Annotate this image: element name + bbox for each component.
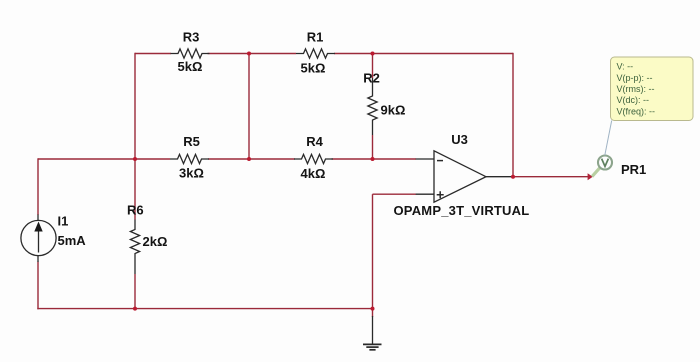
current source bottom pin <box>37 256 39 262</box>
wire mid row right of R4 to op-amp pin <box>332 158 417 160</box>
resistor R5 <box>170 154 209 163</box>
wire top segment between R3 and R1 <box>208 53 297 55</box>
probe PR1 green stub <box>592 168 600 177</box>
op-amp plus pin <box>416 193 434 195</box>
wire left vertical upper (x=135) <box>134 53 136 220</box>
resistor R6 (vertical) <box>130 220 139 275</box>
current source top pin <box>37 215 39 221</box>
junction node mid-middle (249,159) <box>247 157 251 161</box>
junction node output (513,176.7) <box>511 175 515 179</box>
wire top segment left of R3 <box>37 53 588 317</box>
svg-text:V: --: V: -- <box>617 62 634 72</box>
svg-text:9kΩ: 9kΩ <box>381 102 406 117</box>
svg-text:R3: R3 <box>183 30 200 45</box>
svg-text:V(rms): --: V(rms): -- <box>617 84 655 94</box>
wire vertical x=249 between top and mid rows <box>248 54 250 160</box>
op-amp minus sign <box>437 160 443 162</box>
svg-text:R6: R6 <box>127 203 144 218</box>
wire R2 column upper <box>372 54 374 79</box>
svg-text:3kΩ: 3kΩ <box>179 166 204 181</box>
junction node top-middle (249,53.5) <box>247 52 251 56</box>
resistor R1 <box>296 49 335 58</box>
wire mid row left of R5 <box>38 158 170 160</box>
svg-text:2kΩ: 2kΩ <box>143 234 168 249</box>
wire top segment right of R1 to feedback corner <box>334 53 513 55</box>
wire I1 branch lower <box>37 262 39 310</box>
op-amp output pin <box>486 176 512 178</box>
ground lead black <box>372 316 374 344</box>
svg-text:V(dc): --: V(dc): -- <box>617 95 650 105</box>
wire feedback vertical x=513 <box>512 53 514 177</box>
wire ground stub red <box>372 309 374 317</box>
junction node mid R2 (372.5,159) <box>371 157 375 161</box>
svg-text:OPAMP_3T_VIRTUAL: OPAMP_3T_VIRTUAL <box>394 203 530 218</box>
op-amp minus pin <box>416 158 434 160</box>
ground bar 1 <box>363 343 382 345</box>
junction node mid-left (135,159) <box>133 157 137 161</box>
junction node bottom R6 column (135,308.6) <box>133 307 137 311</box>
svg-text:V(p-p): --: V(p-p): -- <box>617 73 653 83</box>
wire plus-input vertical down to bottom row <box>372 194 374 308</box>
svg-text:R2: R2 <box>363 71 380 86</box>
probe wire arrowhead <box>588 173 593 180</box>
current source I1 circle <box>21 220 56 255</box>
current source arrowhead <box>34 222 42 232</box>
wire I1 branch upper <box>37 158 39 215</box>
wire left vertical lower below R6 <box>134 274 136 309</box>
svg-text:4kΩ: 4kΩ <box>301 166 326 181</box>
probe callout yellow box <box>611 57 694 121</box>
junction node top R2 (372.5,53.5) <box>371 52 375 56</box>
wire bottom row <box>37 308 372 310</box>
svg-text:U3: U3 <box>451 132 468 147</box>
svg-text:PR1: PR1 <box>621 162 646 177</box>
svg-text:R1: R1 <box>307 30 324 45</box>
svg-text:5kΩ: 5kΩ <box>301 61 326 76</box>
probe callout connector line <box>605 121 612 156</box>
probe PR1 V glyph <box>602 159 609 167</box>
junction node bottom ground (372.5,308.6) <box>371 307 375 311</box>
probe PR1 circle <box>598 156 612 170</box>
current source arrow shaft <box>38 230 40 253</box>
ground bar 3 <box>369 349 375 351</box>
svg-text:5kΩ: 5kΩ <box>178 59 203 74</box>
svg-text:R5: R5 <box>183 134 200 149</box>
op-amp plus sign <box>437 191 444 198</box>
ground bar 2 <box>366 346 378 348</box>
wire R2 column lower <box>372 135 374 159</box>
wire output row red to probe arrow <box>512 176 589 178</box>
resistor R4 <box>294 154 333 163</box>
wire mid row between R5 and R4 <box>208 158 295 160</box>
svg-text:5mA: 5mA <box>58 233 87 248</box>
resistor R3 <box>171 49 210 58</box>
svg-text:V(freq): --: V(freq): -- <box>617 107 656 117</box>
op-amp U1 triangle <box>434 151 486 202</box>
resistor R2 (vertical) <box>368 78 377 135</box>
svg-text:I1: I1 <box>58 214 69 229</box>
svg-text:R4: R4 <box>306 134 323 149</box>
wire plus-input horizontal <box>373 193 417 195</box>
